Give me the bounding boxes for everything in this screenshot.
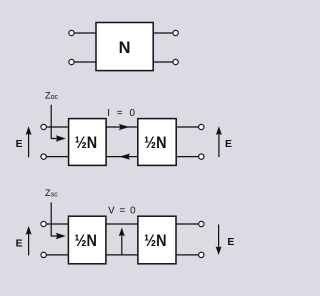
terminal: mid row left top bbox=[41, 124, 46, 129]
wire: mid row right top bbox=[176, 126, 199, 128]
svg-text:V = 0: V = 0 bbox=[108, 205, 137, 216]
source E right (mid row) arrow up bbox=[216, 126, 222, 157]
svg-text:N: N bbox=[119, 39, 131, 57]
half-network box A (bottom row) bbox=[68, 216, 106, 264]
svg-text:I = 0: I = 0 bbox=[107, 108, 137, 119]
terminal: mid row right bottom bbox=[199, 154, 204, 159]
svg-text:½N: ½N bbox=[144, 232, 166, 250]
wire: mid row left top bbox=[46, 126, 68, 128]
half-network box B (bottom row) bbox=[138, 216, 176, 264]
svg-text:E: E bbox=[225, 139, 232, 150]
wire: mid row left bottom bbox=[46, 156, 68, 158]
source E right (bottom row) arrow down bbox=[216, 224, 222, 255]
terminal: bottom row left bottom bbox=[41, 252, 46, 257]
current arrowhead left on middle bottom wire bbox=[119, 154, 130, 160]
half-network box A (mid row) bbox=[69, 119, 107, 166]
terminal: top network port2 top bbox=[173, 30, 178, 35]
svg-text:½N: ½N bbox=[75, 134, 97, 152]
wire: top network right-top bbox=[153, 32, 173, 34]
wire: bottom row middle top (short circuit) bbox=[106, 223, 138, 225]
svg-text:E: E bbox=[16, 139, 23, 150]
source E left (bottom row) arrow up bbox=[26, 226, 32, 256]
terminal: top network port2 bottom bbox=[173, 59, 178, 64]
wire: bottom row right bottom bbox=[176, 254, 199, 256]
wire: mid row right bottom bbox=[176, 156, 199, 158]
terminal: bottom row right top bbox=[199, 221, 204, 226]
network N box bbox=[96, 23, 153, 71]
source E left (mid row) arrow up bbox=[26, 126, 32, 157]
wire: bottom row left top bbox=[46, 223, 68, 225]
half-network box B (mid row) bbox=[138, 119, 176, 166]
svg-text:½N: ½N bbox=[75, 232, 97, 250]
terminal: bottom row right bottom bbox=[199, 252, 204, 257]
wire: top network right-bottom bbox=[153, 61, 173, 63]
wire: mid row middle bottom bbox=[106, 156, 138, 158]
Zoc pointer leader with arrowhead bbox=[51, 105, 66, 142]
current arrowhead right on middle top wire bbox=[119, 124, 130, 130]
wire: bottom row middle bottom (short circuit) bbox=[106, 254, 138, 256]
wire: top network left-bottom bbox=[74, 61, 96, 63]
terminal: top network port1 top bbox=[69, 30, 74, 35]
voltage arrow up between short-circuit links bbox=[119, 228, 125, 255]
svg-text:½N: ½N bbox=[144, 134, 166, 152]
wire: bottom row left bottom bbox=[46, 254, 68, 256]
wire: bottom row right top bbox=[176, 223, 199, 225]
wire: mid row middle top bbox=[106, 126, 138, 128]
svg-text:E: E bbox=[16, 239, 23, 250]
wire: top network left-top bbox=[74, 32, 96, 34]
terminal: mid row right top bbox=[199, 124, 204, 129]
terminal: mid row left bottom bbox=[41, 154, 46, 159]
terminal: bottom row left top bbox=[41, 221, 46, 226]
Zsc pointer leader with arrowhead bbox=[51, 202, 66, 239]
svg-text:E: E bbox=[227, 237, 234, 248]
terminal: top network port1 bottom bbox=[69, 59, 74, 64]
